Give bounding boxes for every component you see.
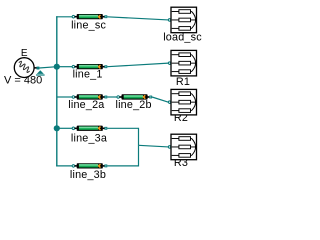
line line_1 [72,64,107,69]
voltage source sine squiggle [17,61,31,74]
line line_3a [72,126,107,131]
load R3 [168,134,196,160]
load load_sc [168,7,196,33]
svg-text:line_1: line_1 [73,69,103,81]
wire line_1 to R1 [107,63,168,67]
svg-text:line_sc: line_sc [71,20,106,32]
junction node dot 2 [54,125,60,131]
wire junction to line_1 [57,66,72,68]
svg-text:line_2a: line_2a [68,99,104,111]
wire trunk bottom to line_3b [56,165,72,167]
svg-text:line_3a: line_3a [71,133,107,145]
wire trunk to line_2a [57,96,72,98]
wire line_2b to R2 [152,97,168,102]
wire tee to R3 [139,145,169,147]
line line_2a [72,94,107,99]
line line_2b [117,94,152,99]
voltage source right pin stub [34,67,37,69]
wire line_sc to load_sc [107,17,168,20]
wire junction2 to line_3a [57,127,72,129]
wire line_3b right [107,145,138,166]
load R2 [168,89,196,115]
voltage source E circle [14,58,34,78]
wire line_2a to line_2b [107,96,117,98]
load R1 [168,50,196,76]
wire trunk vertical [56,16,58,166]
svg-text:R1: R1 [176,76,190,88]
neutral marker base bar [36,74,45,75]
svg-text:line_3b: line_3b [70,169,106,181]
line line_3b [72,163,107,168]
junction node dot 1 [54,64,60,70]
wire source to junction [39,67,57,68]
wire line_3a right [107,128,138,145]
neutral marker triangle [37,70,44,74]
voltage source port square [37,67,40,70]
svg-text:line_2b: line_2b [115,99,151,111]
svg-text:load_sc: load_sc [163,32,202,44]
line line_sc [72,14,107,19]
wire trunk top to line_sc [56,16,72,18]
